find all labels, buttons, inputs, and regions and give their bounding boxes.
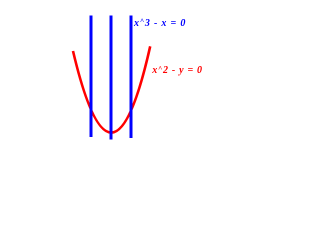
blue line x=0 (center) xyxy=(110,15,113,139)
blue line x=1 xyxy=(130,15,133,137)
blue line x=-1 xyxy=(90,15,93,136)
red parabola x^2-y=0 xyxy=(73,46,150,132)
